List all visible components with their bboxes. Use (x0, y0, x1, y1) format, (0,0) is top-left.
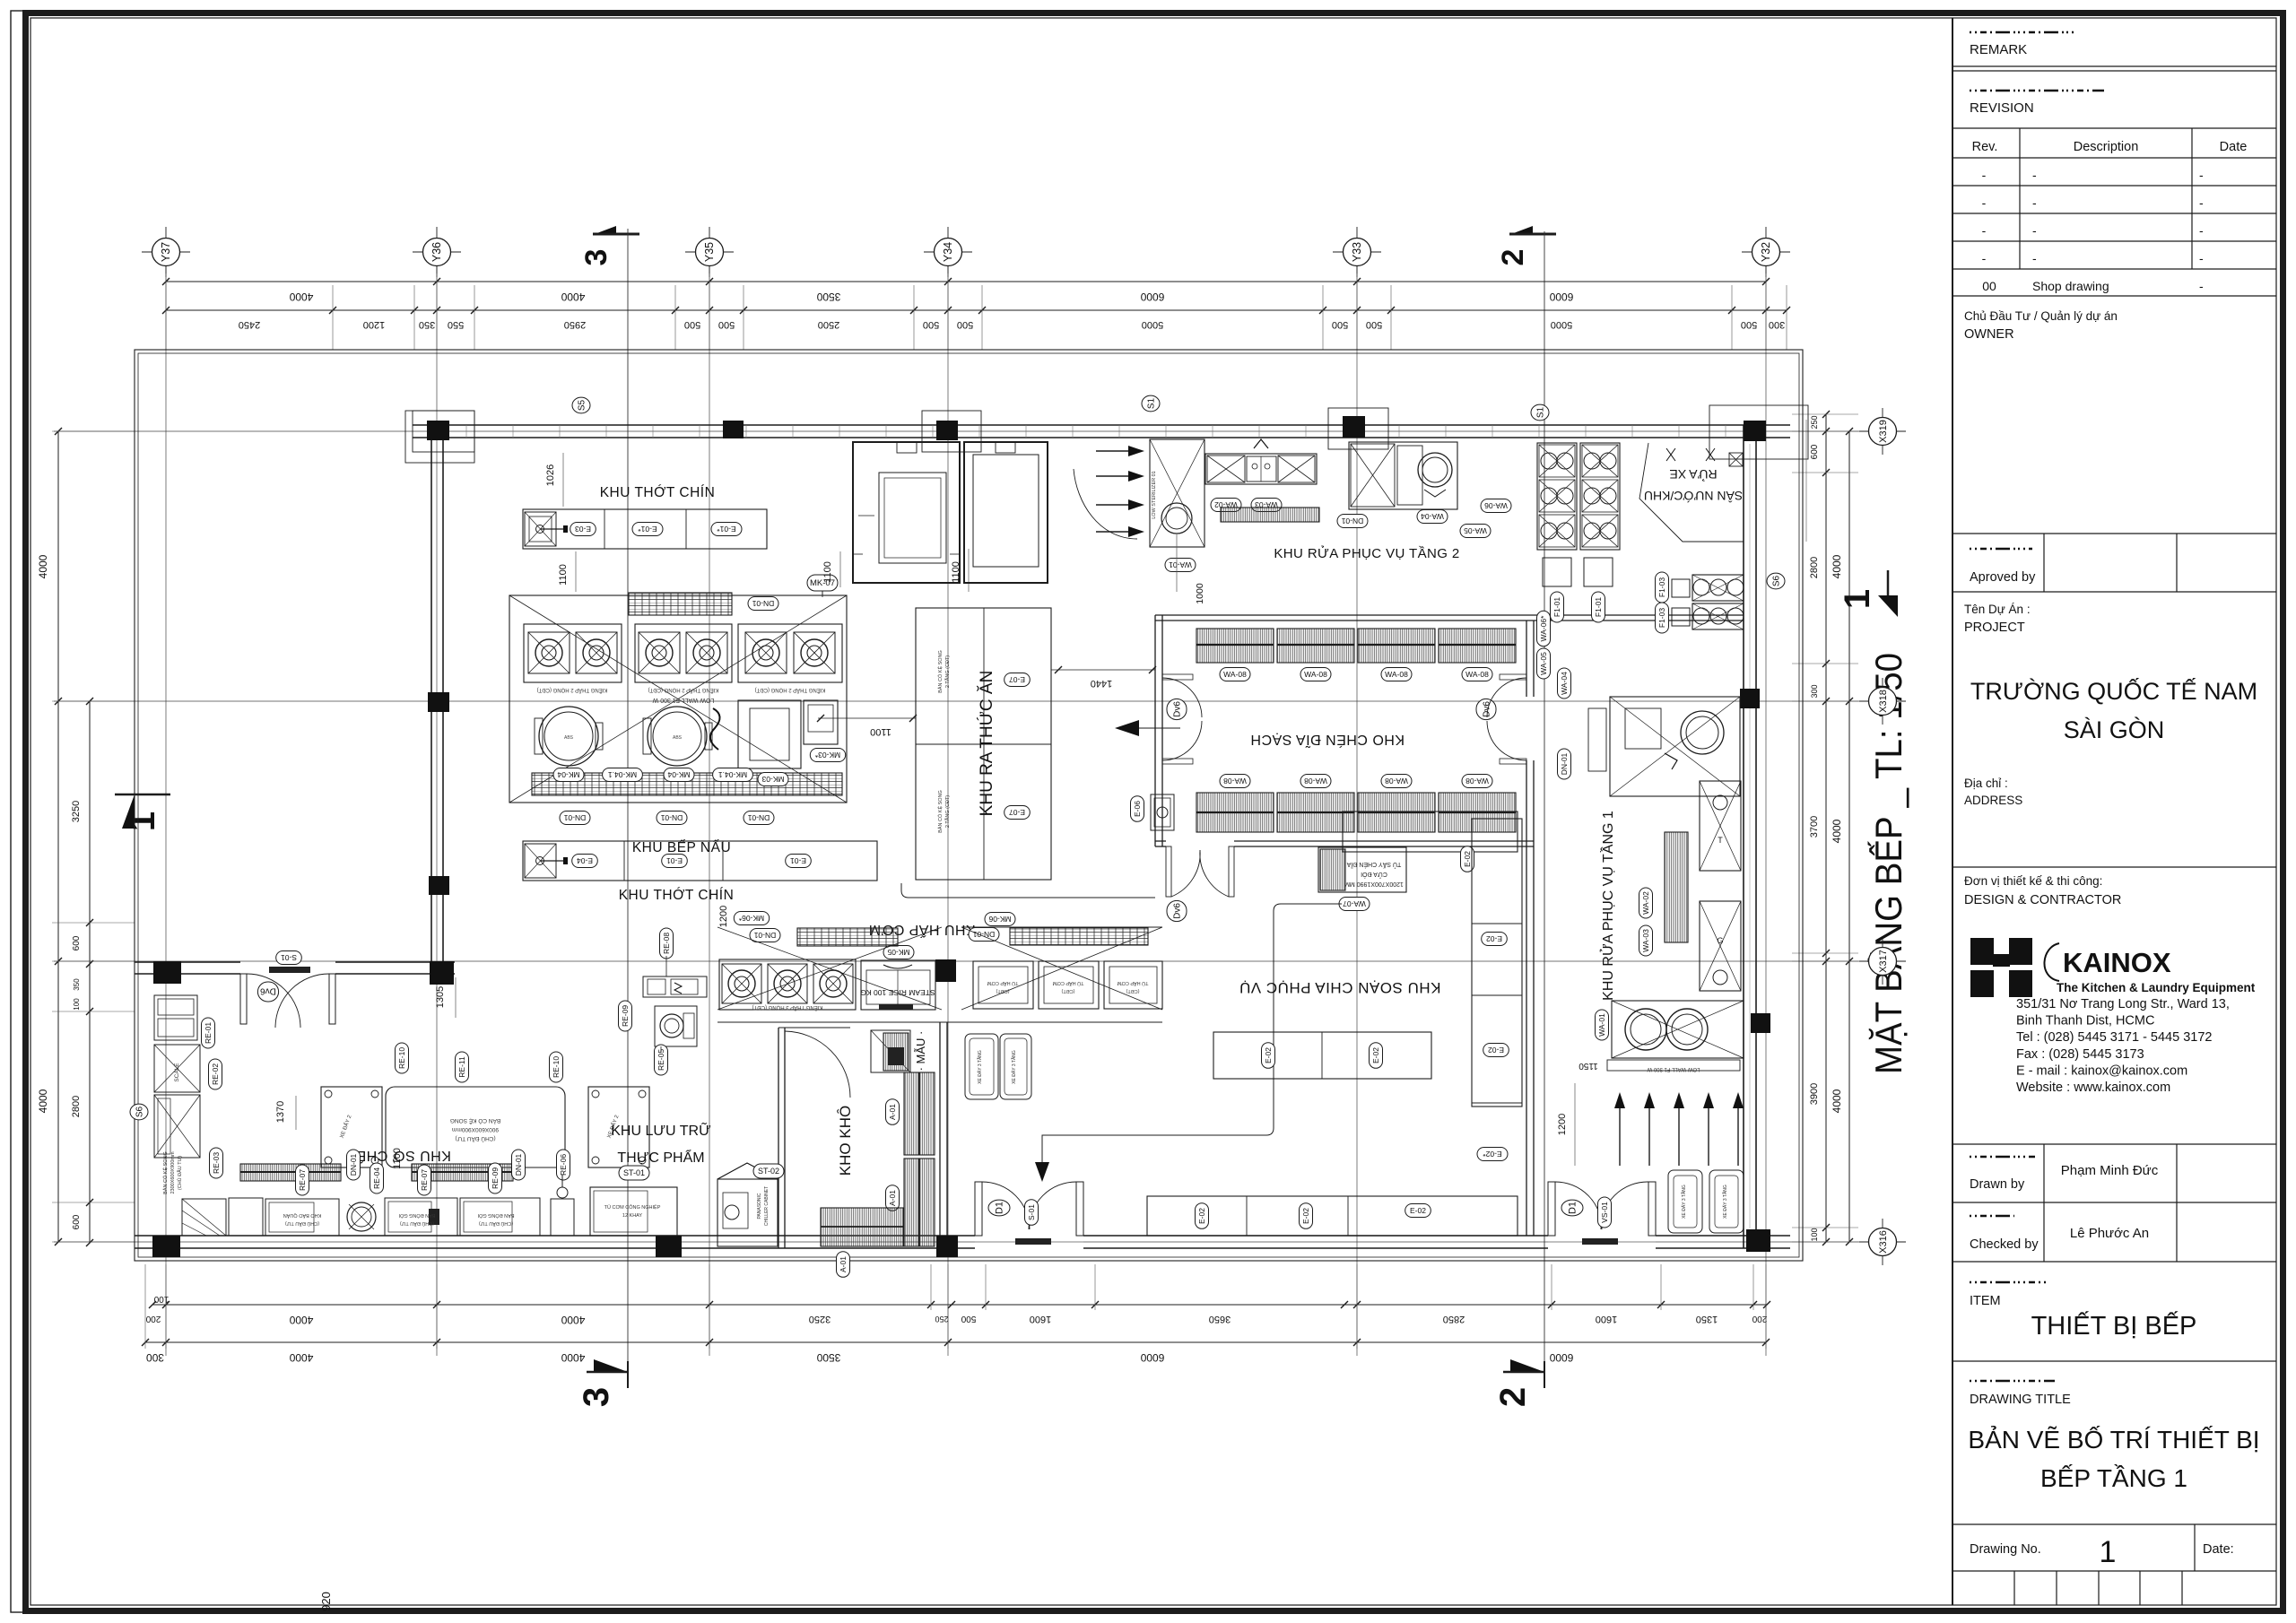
svg-text:Drawn by: Drawn by (1970, 1177, 2025, 1192)
svg-text:3: 3 (579, 249, 613, 266)
left wall box 2 (154, 1095, 200, 1158)
svg-text:THỰC PHẨM: THỰC PHẨM (617, 1149, 704, 1166)
counter KHU THOT CHIN lower (523, 841, 877, 881)
svg-text:F1-01: F1-01 (1552, 597, 1561, 617)
svg-text:G: G (1717, 936, 1723, 945)
svg-text:600: 600 (1810, 444, 1820, 459)
svg-text:Date:: Date: (2203, 1542, 2234, 1557)
svg-text:300: 300 (146, 1351, 164, 1364)
svg-text:Y34: Y34 (942, 242, 954, 262)
title block REMARK section (1970, 31, 2077, 34)
counter strip right (1472, 819, 1522, 1107)
shelving A-01 vertical b (904, 1159, 935, 1246)
svg-text:RE-06: RE-06 (559, 1154, 568, 1176)
svg-text:Description: Description (2074, 140, 2139, 154)
oval F1-01 b (1592, 592, 1605, 622)
dish rack row bottom (1196, 793, 1274, 832)
oval WA-03 t1 (1639, 925, 1653, 956)
cook island outline with cross (509, 595, 847, 803)
svg-text:Y32: Y32 (1760, 242, 1772, 262)
oval RE-07 b (418, 1165, 431, 1195)
column steam row Y34 (935, 959, 956, 982)
svg-text:1000: 1000 (1195, 583, 1205, 604)
svg-text:3900: 3900 (1809, 1083, 1820, 1105)
svg-text:LOW WALL F1 300 W: LOW WALL F1 300 W (652, 697, 714, 703)
svg-text:250: 250 (935, 1315, 948, 1324)
svg-text:4000: 4000 (561, 1351, 585, 1364)
burner bank 3 (738, 624, 842, 682)
svg-text:THIẾT BỊ BẾP: THIẾT BỊ BẾP (2031, 1310, 2197, 1341)
svg-text:(CĐT): (CĐT) (996, 988, 1009, 994)
svg-text:920: 920 (319, 1592, 333, 1611)
svg-text:1200: 1200 (1557, 1114, 1568, 1135)
dim 1100 shaft vertical (839, 551, 841, 587)
svg-text:KHO BẢO QUẢN: KHO BẢO QUẢN (283, 1212, 322, 1219)
svg-text:KHU RỬA PHỤC VỤ TẦNG 1: KHU RỬA PHỤC VỤ TẦNG 1 (1599, 811, 1616, 1001)
svg-text:WA-01: WA-01 (1169, 560, 1192, 569)
bottom dimension extension lines (144, 1264, 146, 1349)
dish rack row top (1196, 629, 1274, 663)
svg-text:MK-04.1: MK-04.1 (718, 770, 747, 779)
pot wash sinks (1612, 1001, 1744, 1058)
svg-text:D1: D1 (1568, 1202, 1578, 1214)
oval RE-01 (202, 1018, 215, 1048)
svg-text:S1: S1 (1146, 397, 1156, 409)
sink E-04 (525, 844, 556, 878)
svg-text:350: 350 (73, 978, 81, 991)
column Y36 mid (429, 876, 449, 895)
oval A-01 c (837, 1252, 850, 1278)
counter boxes so che (229, 1198, 263, 1236)
oval MK-06 (985, 913, 1015, 926)
hood left hap com (797, 928, 898, 946)
svg-text:3650: 3650 (1209, 1314, 1231, 1324)
oval RE-09 (619, 1001, 632, 1031)
svg-text:4000: 4000 (1831, 819, 1843, 843)
wash unit top right (1610, 697, 1740, 796)
svg-text:T: T (1718, 836, 1723, 845)
hood right hap com (1010, 928, 1148, 945)
oval E-01 lower a (662, 855, 688, 868)
svg-text:4000: 4000 (1831, 1089, 1843, 1113)
counter bottom right (1147, 1196, 1518, 1236)
top dimension line row 2 (166, 309, 1787, 311)
tilting pan MK-03 (738, 700, 801, 768)
trolley XE DAY 2 TANG b (588, 1087, 649, 1167)
svg-text:KIỀNG THẤP 2 HỌNG (CĐT): KIỀNG THẤP 2 HỌNG (CĐT) (755, 687, 826, 693)
svg-text:E-06: E-06 (1133, 801, 1142, 817)
svg-text:(CĐT): (CĐT) (1061, 988, 1074, 994)
burner bank 2 (635, 624, 732, 682)
svg-text:500: 500 (684, 319, 700, 330)
left wall fridge RE-01 (154, 995, 197, 1040)
ovals WA-08 bottom row (1220, 775, 1250, 788)
svg-text:-: - (2032, 251, 2037, 265)
oval E-02 strip c (1477, 1148, 1508, 1161)
svg-text:WA-02: WA-02 (1641, 891, 1650, 915)
svg-text:500: 500 (718, 319, 735, 330)
svg-text:1305: 1305 (435, 986, 446, 1008)
svg-text:DRAWING TITLE: DRAWING TITLE (1970, 1393, 2071, 1407)
svg-text:F1-03: F1-03 (1657, 577, 1666, 597)
column footing Y32 (1709, 405, 1808, 459)
dim 1100 vertical below (575, 551, 577, 592)
svg-text:E-02: E-02 (1264, 1047, 1273, 1063)
svg-text:2 TẦNG (CĐT): 2 TẦNG (CĐT) (944, 795, 951, 828)
svg-text:KHU THỚT CHÍN: KHU THỚT CHÍN (600, 485, 716, 500)
horizontal grid lines (54, 430, 1896, 432)
svg-text:4000: 4000 (289, 291, 313, 303)
svg-text:5000: 5000 (1142, 319, 1163, 330)
svg-text:1200: 1200 (363, 319, 385, 330)
corridor boundary line khu soan (901, 883, 1155, 898)
svg-text:1026: 1026 (545, 464, 556, 486)
title block bottom cells (1952, 1570, 2276, 1572)
oval E-02 island a (1262, 1043, 1275, 1069)
svg-text:ADDRESS: ADDRESS (1964, 794, 2022, 807)
column Y34/X316 (936, 1236, 958, 1257)
svg-text:RỬA XE: RỬA XE (1669, 467, 1717, 482)
column left bottom corner (152, 1236, 180, 1257)
drawing number row (1952, 1523, 2276, 1525)
column Y32/X319 corner (1744, 421, 1766, 441)
dim 1026 vertical (562, 453, 564, 507)
svg-text:100: 100 (1810, 1228, 1819, 1241)
svg-text:ST-02: ST-02 (758, 1167, 779, 1176)
column Y37 wall junction (153, 961, 181, 984)
svg-text:3700: 3700 (1809, 816, 1820, 838)
leader from MK-07 (822, 591, 823, 597)
svg-text:S1: S1 (1535, 406, 1545, 418)
oval DV6 bottom (1167, 900, 1187, 921)
svg-text:KHO CHÉN ĐĨA SẠCH: KHO CHÉN ĐĨA SẠCH (1250, 732, 1405, 750)
svg-text:00: 00 (1982, 279, 1996, 293)
svg-text:DN-01: DN-01 (1560, 752, 1569, 775)
svg-text:ABS: ABS (673, 735, 683, 741)
svg-text:500: 500 (1366, 319, 1382, 330)
svg-text:Đơn vị thiết kế & thi công:: Đơn vị thiết kế & thi công: (1964, 874, 2102, 888)
title block REVISION section (1970, 90, 2104, 92)
svg-text:BÀN ĐÓNG GÓI: BÀN ĐÓNG GÓI (398, 1212, 435, 1219)
oval RE-08 (660, 928, 674, 959)
svg-text:1100: 1100 (822, 561, 833, 583)
svg-text:KHU LƯU TRỮ: KHU LƯU TRỮ (611, 1121, 711, 1139)
svg-text:ABS: ABS (564, 735, 574, 741)
svg-text:WA-08: WA-08 (1385, 777, 1408, 785)
svg-text:CHILLER CABINET: CHILLER CABINET (764, 1186, 770, 1226)
svg-text:1: 1 (2100, 1535, 2117, 1569)
approved by row (1952, 533, 2276, 534)
svg-text:WA-08: WA-08 (1223, 777, 1247, 785)
svg-text:Lê Phước An: Lê Phước An (2070, 1226, 2149, 1241)
svg-text:E-02*: E-02* (1483, 1150, 1502, 1159)
svg-text:S5: S5 (577, 399, 587, 411)
svg-text:TỦ HẤP CƠM: TỦ HẤP CƠM (1117, 980, 1148, 986)
oval F1-03 b (1656, 603, 1669, 633)
svg-text:200: 200 (145, 1314, 161, 1324)
item row (1952, 1261, 2276, 1263)
svg-text:RE-03: RE-03 (212, 1152, 221, 1174)
svg-text:LOW STERILIZER 01: LOW STERILIZER 01 (1152, 471, 1157, 519)
svg-text:KAINOX: KAINOX (2063, 947, 2171, 978)
wall top exterior on X319 (413, 424, 1790, 426)
double sink unit (1205, 454, 1317, 484)
oval E-02 br a (1196, 1203, 1209, 1229)
svg-text:X318: X318 (1878, 690, 1889, 713)
svg-text:· MẪU ·: · MẪU · (914, 1031, 927, 1072)
tap symbols (1666, 448, 1675, 461)
wall room KHO CHEN DIA SACH left (1154, 615, 1156, 846)
grid bubbles top row Y37..Y32 (165, 227, 167, 277)
svg-text:(CHỦ ĐẦU TƯ): (CHỦ ĐẦU TƯ) (177, 1156, 183, 1190)
svg-text:RE-04: RE-04 (372, 1167, 381, 1189)
svg-text:WA-04: WA-04 (1421, 512, 1444, 521)
svg-text:DN-01: DN-01 (514, 1153, 523, 1176)
svg-text:Y35: Y35 (703, 242, 716, 262)
svg-text:3250: 3250 (71, 801, 82, 822)
ovals DN-01 bottom row (560, 811, 590, 825)
svg-text:MK-04: MK-04 (667, 770, 690, 779)
bottom dimension line row 1 (152, 1304, 1767, 1306)
svg-text:1370: 1370 (275, 1101, 286, 1123)
right dimension chain inner (1825, 414, 1827, 1242)
left dimension extension lines (52, 430, 135, 432)
oval A-01 b (886, 1185, 900, 1211)
svg-text:E-02: E-02 (1410, 1206, 1426, 1215)
checked by row (1952, 1202, 2276, 1203)
section line 2 (1544, 231, 1545, 1361)
oval E-02 upper (1461, 846, 1474, 872)
svg-text:WA-08: WA-08 (1385, 670, 1408, 679)
svg-text:4000: 4000 (561, 1314, 585, 1326)
sample fridge MAU group (871, 1030, 910, 1072)
oval MK-03star (810, 749, 845, 762)
svg-text:4000: 4000 (37, 1089, 49, 1113)
svg-text:-: - (1982, 251, 1987, 265)
svg-text:2800: 2800 (71, 1096, 82, 1117)
svg-text:RE-01: RE-01 (204, 1022, 213, 1044)
svg-text:DN-01: DN-01 (752, 599, 774, 608)
column right mid (1751, 1013, 1770, 1033)
svg-text:RE-07: RE-07 (420, 1169, 429, 1191)
svg-text:5000: 5000 (1551, 319, 1572, 330)
svg-text:-: - (2032, 168, 2037, 182)
wall room KHO CHEN DIA SACH top (1155, 614, 1744, 616)
stove bank F1-01 b (1580, 443, 1620, 550)
svg-text:S6: S6 (1771, 575, 1781, 586)
svg-text:500: 500 (923, 319, 939, 330)
oval MK-03 (758, 773, 788, 786)
svg-text:2450: 2450 (239, 319, 260, 330)
svg-text:LOW WALL F1 300 W: LOW WALL F1 300 W (1647, 1066, 1700, 1072)
svg-text:WA-05: WA-05 (1539, 652, 1548, 675)
svg-text:RE-02: RE-02 (211, 1063, 220, 1085)
svg-text:E-02: E-02 (1486, 934, 1502, 943)
oval DN-01 hap a (750, 929, 780, 942)
mixer bench (643, 976, 707, 997)
elevator shaft 2 (964, 442, 1048, 583)
oval MK-04 a (553, 768, 584, 782)
svg-text:X316: X316 (1878, 1230, 1889, 1254)
svg-text:A-01: A-01 (888, 1190, 897, 1206)
oval E-02 island b (1370, 1043, 1383, 1069)
kettle MK-04 b (648, 707, 707, 766)
door DV6 middle wall leaves and swing (240, 974, 247, 1024)
svg-text:PANASONIC: PANASONIC (757, 1193, 762, 1219)
section marker 1 left (115, 794, 170, 796)
svg-text:DN-01: DN-01 (972, 930, 995, 939)
oval MK-04.1 a (603, 768, 643, 782)
svg-text:12 KHAY: 12 KHAY (622, 1213, 643, 1219)
svg-text:KIỀNG THẤP 2 HỌNG (CĐT): KIỀNG THẤP 2 HỌNG (CĐT) (537, 687, 608, 693)
stove bank F1-03 b (1692, 603, 1744, 629)
top dimension extension lines (165, 285, 167, 350)
counter box 4 (460, 1198, 540, 1236)
grid bubbles right column X319..X316 (1882, 408, 1883, 455)
svg-text:F1-01: F1-01 (1594, 597, 1603, 617)
svg-text:S-01: S-01 (281, 953, 297, 962)
revision table (1952, 127, 2276, 129)
door D1 left (975, 1182, 982, 1236)
svg-text:WA-04: WA-04 (1560, 672, 1569, 695)
counter right of door2 (1668, 1170, 1702, 1233)
prep bench center (386, 1087, 565, 1167)
counter box 5 with tap (551, 1199, 574, 1236)
svg-text:1100: 1100 (870, 726, 891, 737)
svg-text:WA-08: WA-08 (1223, 670, 1247, 679)
counter KHU THOT CHIN upper (523, 509, 767, 549)
svg-text:-: - (2032, 195, 2037, 210)
hood DN-01 top (629, 593, 732, 615)
trolley XE DAY 3 TANG b (1000, 1034, 1031, 1099)
svg-text:DN-01: DN-01 (1341, 516, 1363, 525)
svg-text:Tên Dự Án :: Tên Dự Án : (1964, 603, 2031, 616)
svg-text:KHU BẾP NẤU: KHU BẾP NẤU (632, 840, 731, 855)
column Y32/X316 corner (1746, 1229, 1770, 1252)
kettle MK-04 a (539, 707, 598, 766)
steam group right outline (961, 927, 1162, 1010)
oval S5 top wall (572, 397, 590, 413)
svg-text:Y37: Y37 (160, 242, 172, 262)
svg-text:1600: 1600 (1596, 1314, 1617, 1324)
oval VS-01 door right (1598, 1197, 1612, 1228)
island counter khu soan (1213, 1032, 1431, 1079)
svg-text:4000: 4000 (289, 1314, 313, 1326)
oval WA-03 (1251, 499, 1282, 512)
svg-text:Y36: Y36 (430, 242, 443, 262)
svg-text:OWNER: OWNER (1964, 327, 2014, 342)
column footing Y33 (1328, 408, 1388, 449)
svg-text:E-01*: E-01* (638, 525, 657, 534)
design & contractor section (1952, 866, 2276, 868)
svg-text:1440: 1440 (1091, 678, 1112, 689)
svg-text:6000: 6000 (1140, 291, 1164, 303)
svg-text:E-07: E-07 (1009, 675, 1025, 684)
svg-text:Shop drawing: Shop drawing (2032, 279, 2109, 293)
svg-text:E - mail : kainox@kainox.com: E - mail : kainox@kainox.com (2016, 1063, 2187, 1078)
column bottom x700 (656, 1236, 682, 1257)
svg-text:D1: D1 (995, 1202, 1005, 1214)
svg-text:MK-03*: MK-03* (814, 751, 840, 759)
rack so che b (412, 1164, 513, 1181)
svg-text:DN-01: DN-01 (563, 813, 586, 822)
trolley XE DAY 2 TANG a (321, 1087, 382, 1167)
svg-text:300: 300 (1769, 319, 1785, 330)
svg-text:RE-11: RE-11 (457, 1056, 466, 1078)
svg-text:KIỀNG THẤP 3 HỌNG (CĐT): KIỀNG THẤP 3 HỌNG (CĐT) (752, 1004, 823, 1011)
oval RE-06 (557, 1150, 570, 1180)
svg-text:DN-01: DN-01 (349, 1153, 358, 1176)
oval E-07 b (1004, 806, 1031, 820)
oval S1 top wall b (1531, 404, 1549, 421)
oval MK-06star (734, 912, 769, 925)
svg-text:TỦ HẤP CƠM: TỦ HẤP CƠM (987, 980, 1018, 986)
svg-text:E-04: E-04 (577, 856, 593, 865)
svg-text:500: 500 (1741, 319, 1757, 330)
svg-text:MK-03: MK-03 (761, 775, 784, 784)
svg-text:4000: 4000 (289, 1351, 313, 1364)
oval S6 right (1767, 573, 1785, 589)
svg-text:Binh Thanh Dist, HCMC: Binh Thanh Dist, HCMC (2016, 1014, 2154, 1028)
oval DN-01 hap b (969, 928, 999, 942)
rack below sinks (1221, 508, 1319, 522)
column right X318 (1740, 689, 1760, 708)
right dimension chain outer (1848, 431, 1850, 1242)
oval E-02 br b (1300, 1203, 1313, 1229)
oval E-03 (570, 523, 596, 536)
svg-text:E-02: E-02 (1371, 1047, 1380, 1063)
burner bank 1 (524, 624, 622, 682)
oval S6 left (130, 1104, 148, 1120)
svg-text:MK-04: MK-04 (557, 770, 579, 779)
svg-text:WA-08: WA-08 (1304, 777, 1327, 785)
svg-text:A-01: A-01 (888, 1104, 897, 1120)
oval DN-01 tang2 (1337, 515, 1368, 528)
steam cabinet b (1039, 961, 1099, 1009)
svg-text:SÂN NƯỚC/KHU: SÂN NƯỚC/KHU (1644, 489, 1743, 503)
svg-text:KHU RỬA PHỤC VỤ TẦNG 2: KHU RỬA PHỤC VỤ TẦNG 2 (1274, 545, 1459, 561)
svg-text:XE ĐẨY 3 TẦNG: XE ĐẨY 3 TẦNG (1722, 1185, 1728, 1219)
svg-text:600: 600 (72, 935, 82, 950)
door DV6 kho chen right (1476, 699, 1496, 719)
svg-text:E-02: E-02 (1301, 1208, 1310, 1224)
svg-text:100: 100 (153, 1294, 169, 1304)
svg-text:STEAM RICE 100 KG: STEAM RICE 100 KG (860, 988, 935, 997)
wall KHO KHO left (778, 1028, 779, 1248)
svg-text:500: 500 (1332, 319, 1348, 330)
svg-text:XE ĐẨY 3 TẦNG: XE ĐẨY 3 TẦNG (1011, 1050, 1017, 1084)
oval WA-05 (1460, 525, 1491, 538)
column Y35/X319 (723, 421, 744, 438)
svg-text:XE ĐẨY 3 TẦNG: XE ĐẨY 3 TẦNG (1681, 1185, 1687, 1219)
oval WA-06 (1481, 499, 1511, 513)
oval RE-10 b (550, 1052, 563, 1082)
shelving A-01 vertical a (904, 1072, 935, 1155)
wall left upper on Y36 (430, 438, 432, 962)
oval F1-01 a (1551, 592, 1564, 622)
vertical grid lines (165, 265, 167, 1356)
stands below F1-01 (1543, 558, 1571, 586)
svg-text:DESIGN & CONTRACTOR: DESIGN & CONTRACTOR (1964, 893, 2121, 907)
oval S-01 middle wall (276, 951, 302, 965)
svg-text:WA-08: WA-08 (1465, 777, 1489, 785)
svg-text:MK-06*: MK-06* (738, 914, 764, 923)
svg-text:6000: 6000 (1549, 1351, 1573, 1364)
svg-text:E-02: E-02 (1488, 1046, 1504, 1055)
svg-text:Phạm Minh Đức: Phạm Minh Đức (2061, 1163, 2159, 1178)
svg-text:Dv6: Dv6 (1172, 903, 1182, 919)
trolley XE DAY 3 TANG a (965, 1034, 998, 1099)
